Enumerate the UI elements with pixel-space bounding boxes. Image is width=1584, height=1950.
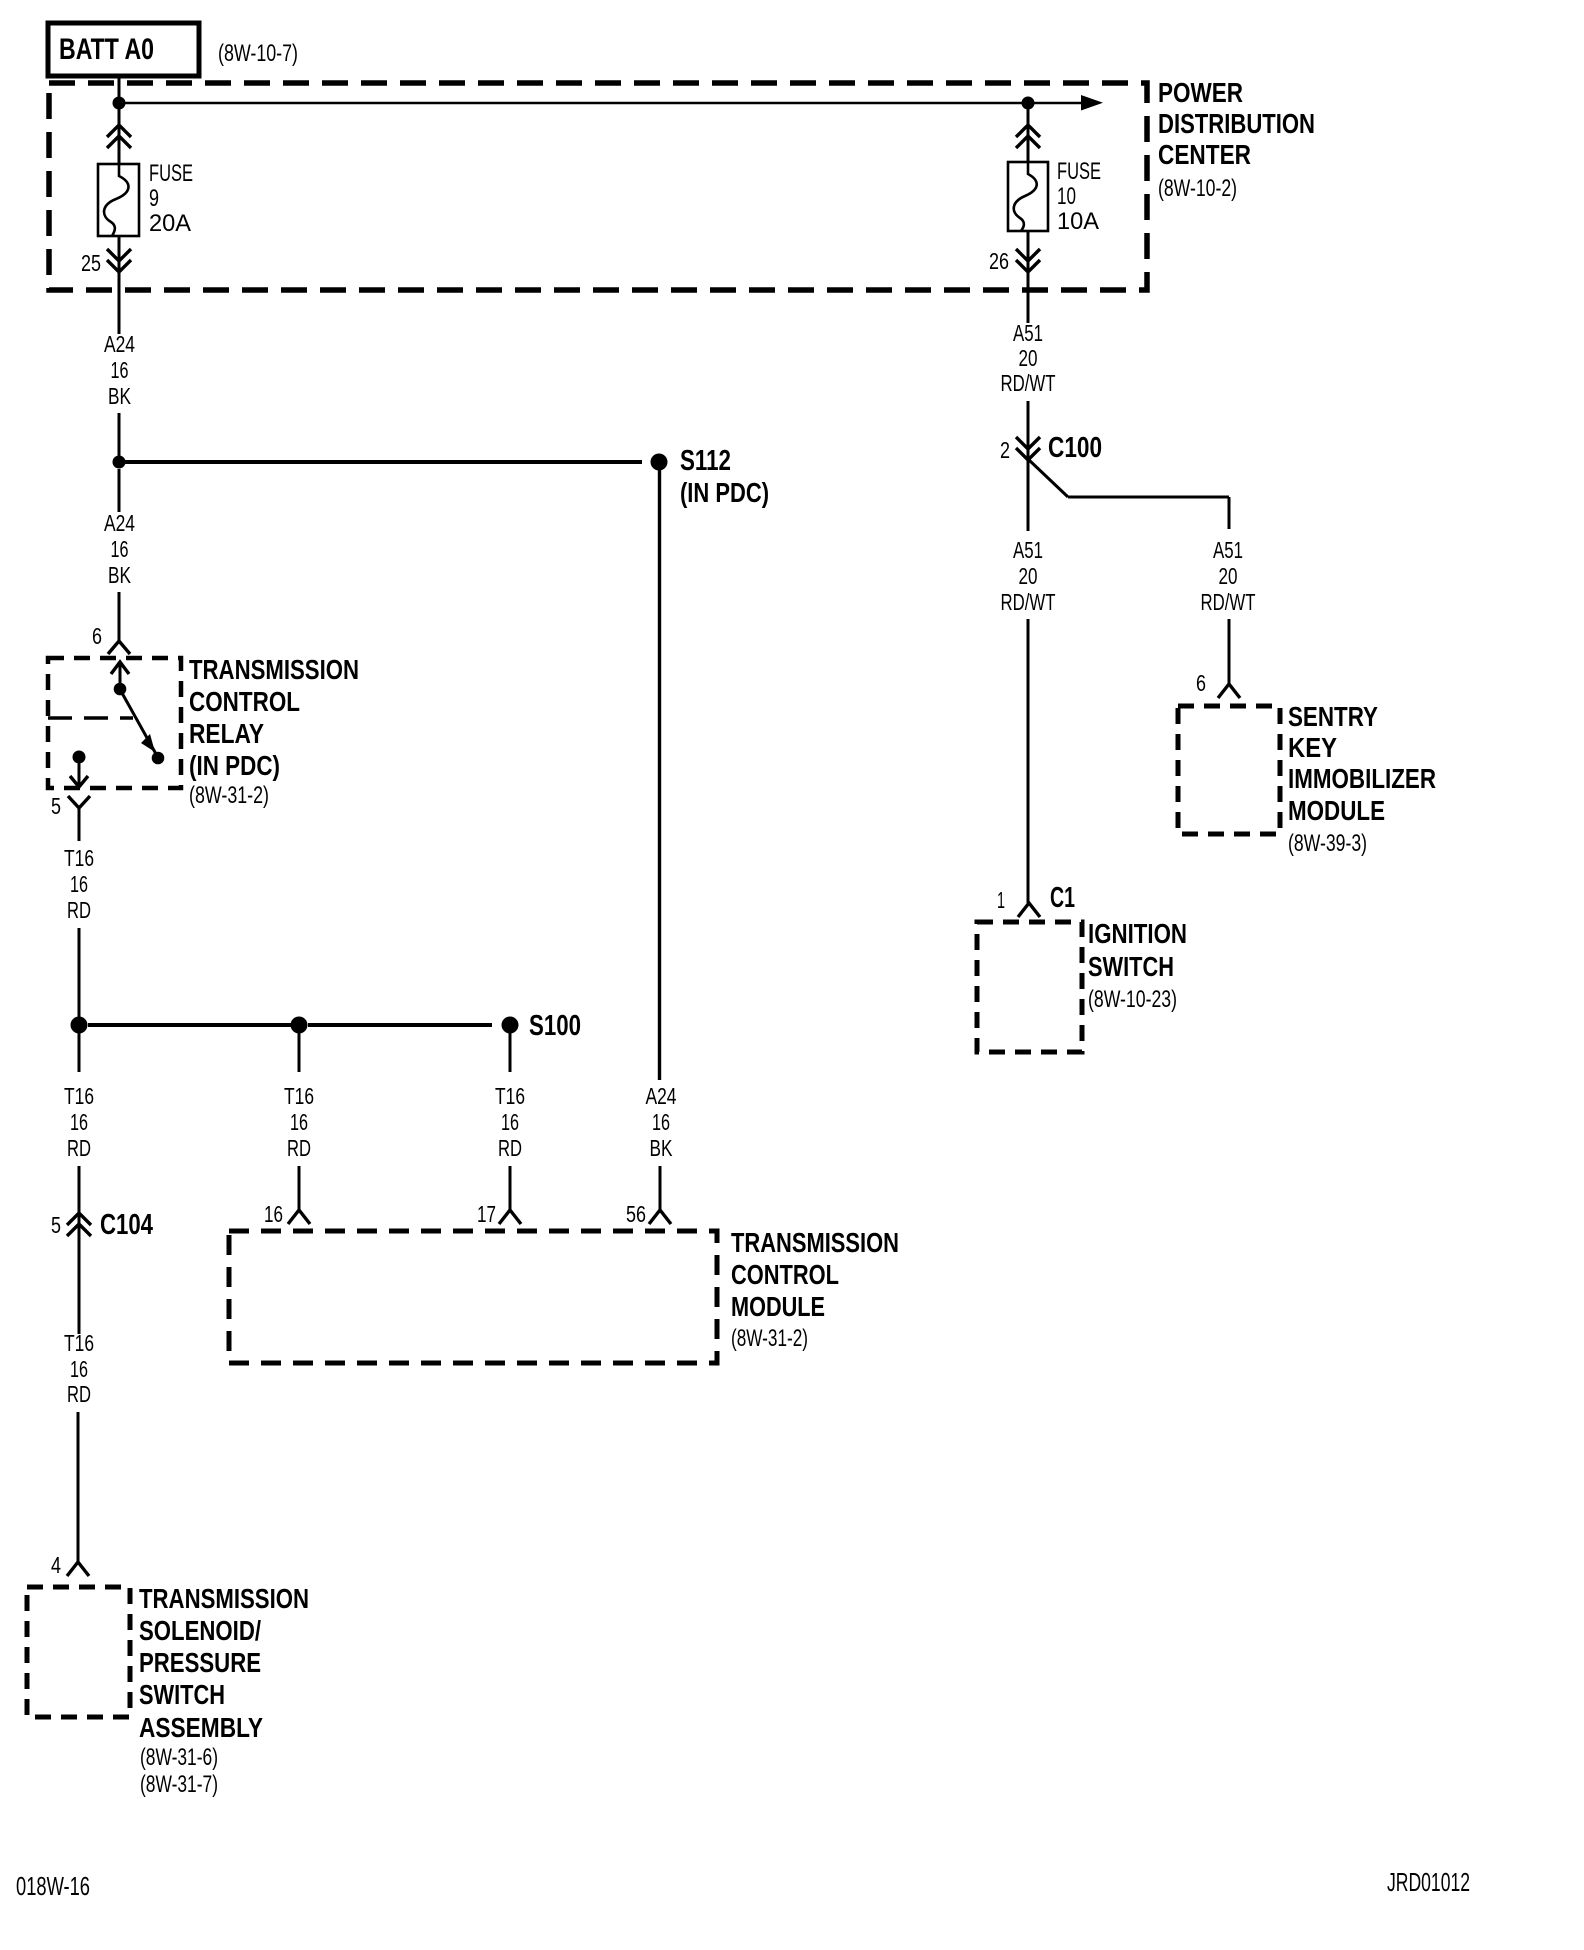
svg-text:T16: T16 — [64, 1083, 94, 1109]
label T16 16 RD col1 lower — [64, 1330, 94, 1407]
svg-text:SWITCH: SWITCH — [1088, 951, 1174, 982]
svg-text:RD: RD — [498, 1135, 522, 1161]
connector chevrons fuse 10 in — [1016, 125, 1040, 148]
connector chevrons C104 — [67, 1213, 91, 1236]
label A51 20 RD/WT top — [1001, 320, 1056, 396]
node S100 right — [502, 1017, 519, 1034]
svg-text:5: 5 — [51, 793, 61, 819]
pin fork TCM pin 16 — [288, 1210, 310, 1224]
relay inner divider — [48, 716, 133, 719]
wire A51 to ignition switch — [1027, 619, 1030, 903]
pin fork relay pin 5 — [68, 796, 90, 841]
label A24 16 BK (2) — [104, 510, 135, 588]
svg-text:RD/WT: RD/WT — [1001, 370, 1056, 396]
svg-text:16: 16 — [652, 1109, 670, 1135]
svg-text:16: 16 — [70, 1109, 88, 1135]
svg-text:BK: BK — [650, 1135, 673, 1161]
svg-text:A51: A51 — [1013, 537, 1043, 563]
svg-text:FUSE: FUSE — [149, 160, 193, 187]
wire splice S100 horizontal 2 — [308, 1023, 492, 1027]
svg-text:DISTRIBUTION: DISTRIBUTION — [1158, 108, 1315, 139]
relay node output — [73, 751, 86, 764]
label A24 16 BK (1) — [104, 331, 135, 409]
svg-text:16: 16 — [264, 1201, 283, 1227]
fuse F9 — [98, 164, 139, 236]
label SENTRY KEY IMMOBILIZER MODULE (8W-39-3) — [1288, 701, 1436, 857]
connector chevrons fuse 9 out — [107, 249, 131, 272]
svg-text:C1: C1 — [1050, 882, 1075, 914]
svg-text:16: 16 — [111, 357, 129, 383]
svg-text:16: 16 — [501, 1109, 519, 1135]
svg-text:1: 1 — [997, 887, 1005, 913]
svg-text:2: 2 — [1000, 437, 1010, 463]
wire stub S100 middle — [298, 1033, 301, 1072]
svg-text:16: 16 — [70, 871, 88, 897]
svg-text:BK: BK — [108, 562, 131, 588]
wire stub S100 left — [78, 1033, 81, 1072]
svg-text:TRANSMISSION: TRANSMISSION — [189, 654, 359, 685]
svg-text:A24: A24 — [104, 331, 135, 357]
relay node common — [114, 683, 127, 696]
svg-text:PRESSURE: PRESSURE — [139, 1647, 261, 1678]
svg-text:A51: A51 — [1013, 320, 1043, 346]
pin fork ignition pin 1 — [1018, 903, 1040, 917]
svg-text:6: 6 — [1196, 670, 1206, 696]
wire A51 segment 1 — [1027, 290, 1030, 323]
svg-text:5: 5 — [51, 1212, 61, 1238]
svg-text:018W-16: 018W-16 — [16, 1871, 90, 1901]
svg-text:17: 17 — [477, 1201, 496, 1227]
wire fuse 10 line out — [1027, 231, 1030, 290]
svg-text:(8W-31-2): (8W-31-2) — [731, 1325, 808, 1352]
wire A24 segment 1 — [118, 290, 121, 334]
label A51 20 RD/WT left — [1001, 537, 1056, 615]
svg-text:FUSE: FUSE — [1057, 158, 1101, 185]
pin fork TCM pin 56 — [649, 1210, 671, 1224]
svg-text:25: 25 — [81, 250, 101, 276]
node splice S112 — [651, 454, 668, 471]
svg-text:4: 4 — [51, 1552, 61, 1578]
svg-text:BK: BK — [108, 383, 131, 409]
svg-text:6: 6 — [92, 623, 102, 649]
connector chevrons C100 — [1016, 437, 1040, 460]
label IGNITION SWITCH (8W-10-23) — [1088, 918, 1187, 1013]
node S100 middle — [291, 1017, 308, 1034]
svg-text:JRD01012: JRD01012 — [1387, 1867, 1470, 1897]
svg-text:16: 16 — [111, 536, 129, 562]
svg-text:T16: T16 — [64, 845, 94, 871]
svg-text:(8W-31-7): (8W-31-7) — [140, 1771, 218, 1798]
svg-text:(IN PDC): (IN PDC) — [680, 477, 769, 508]
label FUSE 9 20A — [149, 160, 193, 237]
label POWER DISTRIBUTION CENTER (8W-10-2) — [1158, 77, 1315, 202]
svg-text:(8W-31-6): (8W-31-6) — [140, 1744, 218, 1771]
wire batt A0 drop — [118, 76, 121, 103]
label T16 16 RD (1) — [64, 845, 94, 923]
svg-text:MODULE: MODULE — [731, 1291, 825, 1322]
wire col3 into TCM pin 17 — [509, 1166, 512, 1210]
wire col4 into TCM pin 56 — [659, 1166, 662, 1210]
svg-text:SENTRY: SENTRY — [1288, 701, 1378, 732]
svg-text:T16: T16 — [284, 1083, 314, 1109]
wire fuse 9 line out — [118, 236, 121, 290]
svg-text:RD/WT: RD/WT — [1201, 589, 1256, 615]
wire T16 to S100 — [78, 928, 81, 1025]
label TRANSMISSION SOLENOID/ PRESSURE SWITCH ASSEMBLY — [139, 1583, 309, 1798]
connector chevrons fuse 9 in — [107, 125, 131, 148]
svg-text:A24: A24 — [104, 510, 135, 536]
wire C100 branch drop — [1228, 497, 1231, 529]
svg-text:CONTROL: CONTROL — [189, 686, 300, 717]
label S112 (IN PDC) — [680, 445, 769, 508]
wire T16 to solenoid assembly — [77, 1412, 80, 1562]
node A0 at fuse 10 — [1022, 97, 1035, 110]
wire C100 branch horizontal — [1068, 496, 1229, 499]
svg-text:A24: A24 — [646, 1083, 677, 1109]
svg-text:(8W-10-23): (8W-10-23) — [1088, 986, 1177, 1013]
svg-text:S100: S100 — [529, 1010, 581, 1042]
connector chevrons fuse 10 out — [1016, 249, 1040, 272]
label TRANSMISSION CONTROL RELAY (IN PDC) (8W-31-2) — [189, 654, 359, 809]
svg-text:20: 20 — [1019, 563, 1038, 589]
relay output arrow down — [70, 757, 88, 787]
wire stub S100 right — [509, 1033, 512, 1072]
power distribution center dashed box — [49, 83, 1147, 290]
svg-text:IGNITION: IGNITION — [1088, 918, 1187, 949]
label FUSE 10 10A — [1057, 158, 1101, 235]
svg-text:(8W-39-3): (8W-39-3) — [1288, 830, 1367, 857]
svg-text:SWITCH: SWITCH — [139, 1679, 225, 1710]
node splice left end — [113, 456, 126, 469]
svg-text:RD: RD — [287, 1135, 311, 1161]
svg-text:26: 26 — [989, 248, 1009, 274]
label A24 16 BK col4 — [646, 1083, 677, 1161]
relay coil arrow up — [111, 662, 129, 689]
svg-text:RD: RD — [67, 1381, 91, 1407]
svg-text:(IN PDC): (IN PDC) — [189, 750, 280, 781]
node A0 at fuse 9 — [113, 97, 126, 110]
svg-text:S112: S112 — [680, 445, 731, 477]
svg-text:ASSEMBLY: ASSEMBLY — [139, 1712, 263, 1743]
label T16 16 RD col3 — [495, 1083, 525, 1161]
svg-text:C104: C104 — [100, 1209, 153, 1241]
svg-text:RD/WT: RD/WT — [1001, 589, 1056, 615]
svg-text:16: 16 — [70, 1356, 88, 1382]
wire A24 segment 3 — [118, 469, 121, 512]
svg-text:BATT A0: BATT A0 — [59, 33, 154, 66]
svg-text:A51: A51 — [1213, 537, 1243, 563]
svg-text:9: 9 — [149, 185, 159, 212]
pin fork solenoid pin 4 — [67, 1562, 89, 1576]
svg-text:T16: T16 — [64, 1330, 94, 1356]
pin fork TCM pin 17 — [499, 1210, 521, 1224]
label TRANSMISSION CONTROL MODULE (8W-31-2) — [731, 1227, 899, 1352]
svg-text:(8W-10-7): (8W-10-7) — [218, 40, 298, 67]
svg-text:20: 20 — [1219, 563, 1238, 589]
connector box BATT A0 — [48, 23, 199, 76]
svg-text:SOLENOID/: SOLENOID/ — [139, 1615, 261, 1646]
svg-text:RELAY: RELAY — [189, 718, 264, 749]
transmission control relay dashed box — [48, 658, 181, 788]
ignition switch dashed box — [977, 922, 1082, 1052]
svg-text:(8W-10-2): (8W-10-2) — [1158, 175, 1237, 202]
svg-text:RD: RD — [67, 1135, 91, 1161]
svg-text:MODULE: MODULE — [1288, 795, 1385, 826]
wire col2 into TCM pin 16 — [298, 1166, 301, 1210]
relay node contact — [152, 752, 165, 765]
svg-text:POWER: POWER — [1158, 77, 1243, 108]
svg-text:(8W-31-2): (8W-31-2) — [189, 782, 269, 809]
svg-text:TRANSMISSION: TRANSMISSION — [731, 1227, 899, 1258]
svg-text:20: 20 — [1019, 345, 1038, 371]
wire A24 segment 4 — [118, 592, 121, 641]
label T16 16 RD col2 — [284, 1083, 314, 1161]
arrow A0 bus head — [1081, 95, 1103, 111]
wire A51 to sentry module — [1228, 619, 1231, 684]
fuse F10 — [1008, 162, 1048, 231]
relay switch blade with arrowhead — [122, 693, 156, 754]
svg-text:16: 16 — [290, 1109, 308, 1135]
svg-text:IMMOBILIZER: IMMOBILIZER — [1288, 763, 1436, 794]
wire A24 segment 2 — [118, 413, 121, 462]
svg-text:10A: 10A — [1057, 208, 1099, 235]
svg-text:KEY: KEY — [1288, 732, 1337, 763]
svg-text:56: 56 — [626, 1201, 646, 1227]
label A51 20 RD/WT right — [1201, 537, 1256, 615]
wire col1 through C104 — [78, 1166, 81, 1334]
svg-text:CENTER: CENTER — [1158, 139, 1251, 170]
sentry key immobilizer dashed box — [1178, 706, 1280, 834]
svg-text:10: 10 — [1057, 183, 1076, 210]
svg-text:TRANSMISSION: TRANSMISSION — [139, 1583, 309, 1614]
svg-text:T16: T16 — [495, 1083, 525, 1109]
wire splice S112 horizontal — [119, 460, 642, 464]
pin fork relay pin 6 — [108, 641, 130, 654]
pin fork sentry pin 6 — [1218, 684, 1240, 698]
wire A0 bus horizontal — [119, 102, 1082, 105]
transmission solenoid dashed box — [27, 1587, 130, 1717]
svg-text:C100: C100 — [1048, 432, 1102, 464]
transmission control module dashed box — [229, 1231, 717, 1363]
svg-text:CONTROL: CONTROL — [731, 1259, 839, 1290]
wire C100 branch diagonal — [1029, 460, 1068, 497]
wire A51 segment 2 through C100 — [1027, 401, 1030, 531]
wire fuse 10 line in — [1027, 103, 1030, 164]
node S100 left — [71, 1017, 88, 1034]
wire splice S100 horizontal 1 — [88, 1023, 291, 1027]
wire S112 drop to TCM pin 56 — [658, 468, 661, 1080]
label T16 16 RD col1 — [64, 1083, 94, 1161]
svg-text:RD: RD — [67, 897, 91, 923]
svg-text:20A: 20A — [149, 210, 191, 237]
wire fuse 9 line in — [118, 103, 121, 166]
